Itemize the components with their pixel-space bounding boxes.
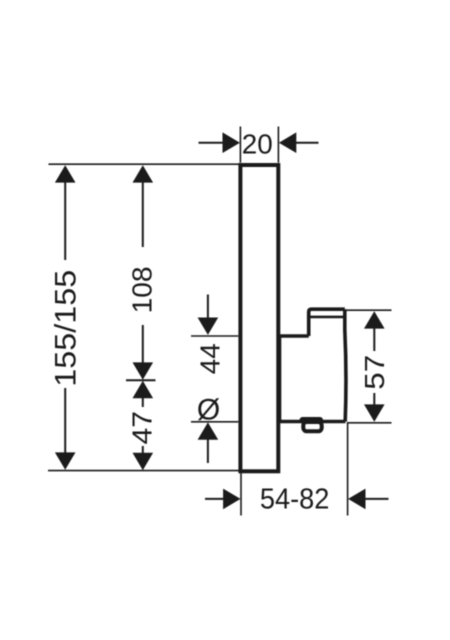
dim 20 left arrow xyxy=(223,132,240,153)
dim 108 line upper segment xyxy=(142,180,144,247)
wall plate (escutcheon side view) xyxy=(240,165,278,471)
dim 155/155 line lower segment xyxy=(64,388,66,455)
extension line bottom-left (plate bottom) xyxy=(48,470,240,472)
handle body right edge (slightly bowed) xyxy=(345,309,346,421)
svg-text:44: 44 xyxy=(195,343,226,374)
dim 57 arrow up xyxy=(364,311,385,328)
dim dia44 upper tail xyxy=(207,295,209,320)
dim 54-82 right arrow xyxy=(348,489,365,510)
extension line 54-82 right xyxy=(347,422,349,516)
dim dia44 arrow down xyxy=(198,318,219,335)
dim 54-82 left arrow xyxy=(223,489,240,510)
dim 20 right arrow xyxy=(279,132,296,153)
dim 108 arrow down xyxy=(133,362,154,379)
dim 155/155 line upper segment xyxy=(64,180,66,260)
extension line top-left (plate top) xyxy=(49,163,239,165)
retainer tab below body xyxy=(303,422,321,431)
dim 54-82 left tail xyxy=(205,498,224,500)
svg-text:20: 20 xyxy=(242,129,273,160)
svg-text:47: 47 xyxy=(127,411,158,445)
extension line 54-82 left xyxy=(240,473,242,516)
dim 57 arrow down xyxy=(364,404,385,421)
svg-text:54-82: 54-82 xyxy=(260,484,330,516)
dim 155/155 arrow up xyxy=(55,165,76,182)
extension line 20 right xyxy=(277,127,279,163)
svg-text:Ø: Ø xyxy=(197,393,220,426)
dim 57 line upper segment xyxy=(373,328,375,351)
dim 47 line upper segment xyxy=(142,397,144,407)
handle body bottom edge xyxy=(279,420,346,424)
dim 47 arrow up xyxy=(133,381,154,398)
extension line 20 left xyxy=(239,127,241,163)
handle body left edge (against plate) xyxy=(278,336,281,422)
dim 47 line lower segment xyxy=(142,446,144,454)
dim 57 line lower segment xyxy=(373,393,375,406)
dim dia44 arrow up xyxy=(198,422,219,439)
dim 20 right tail xyxy=(296,142,319,144)
svg-text:155/155: 155/155 xyxy=(49,270,82,387)
extension line 57 bottom xyxy=(348,422,392,424)
junction tick xyxy=(126,379,156,381)
handle grip step xyxy=(309,309,345,336)
extension line 57 top xyxy=(346,309,392,311)
svg-text:57: 57 xyxy=(359,355,390,390)
extension line dia44 bottom xyxy=(191,421,238,423)
grip ledge line xyxy=(310,316,343,319)
dim 155/155 arrow down xyxy=(55,452,76,469)
dim 47 arrow down xyxy=(133,453,154,470)
dim 54-82 right tail xyxy=(365,498,389,500)
dim dia44 lower tail xyxy=(207,439,209,463)
bump on bottom edge xyxy=(300,417,324,424)
dim 108 arrow up xyxy=(133,165,154,182)
dim 108 line lower segment xyxy=(142,325,144,364)
dim 20 left tail xyxy=(199,142,224,144)
svg-text:108: 108 xyxy=(127,266,158,313)
handle body top edge xyxy=(279,334,309,338)
extension line dia44 top xyxy=(191,335,238,337)
